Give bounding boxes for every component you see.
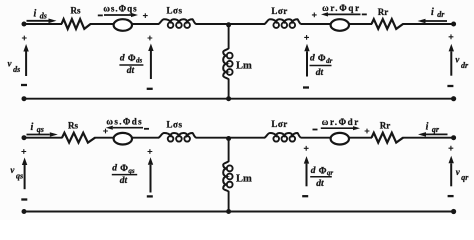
resistor Rs (q-axis stator resistance) xyxy=(62,133,95,143)
node: - mark of rotor speed emf (q) xyxy=(313,129,318,131)
node: + mark of stator speed emf (q) xyxy=(103,129,108,134)
wire: centre junction to L&#963;r xyxy=(229,137,265,139)
node: + mark of d&#934;qr/dt xyxy=(304,146,309,151)
svg-text:Rs: Rs xyxy=(70,5,80,15)
wire: centre junction to L&#963;r xyxy=(229,23,265,25)
source: rotor speed emf (q-axis) xyxy=(331,133,349,145)
node: bottom-left d port xyxy=(22,96,27,101)
resistor Rr (q-axis rotor resistance) xyxy=(372,133,404,143)
node: - mark of vqs xyxy=(21,198,27,200)
wire: source to Rr xyxy=(349,23,372,25)
svg-text:dt: dt xyxy=(120,176,128,186)
wire: centre junction down to Lm (q) xyxy=(228,138,230,162)
wire: polarity arrow of vdr xyxy=(449,44,454,76)
wire: polarity arrow of vqr xyxy=(449,156,454,187)
svg-text:qs: qs xyxy=(16,172,23,181)
svg-text:v: v xyxy=(455,54,460,64)
node: + mark of vdr xyxy=(449,34,454,39)
node: - mark of stator speed emf (q) xyxy=(144,128,149,130)
node: - mark of d&#934;qr/dt xyxy=(302,195,308,197)
svg-text:ωs.Φds: ωs.Φds xyxy=(106,117,143,127)
wire: current arrow iqs xyxy=(27,132,58,137)
svg-text:v: v xyxy=(8,58,13,68)
wire: current arrow idr xyxy=(418,19,448,24)
source: rotor speed emf (d-axis) xyxy=(331,19,349,31)
node: + mark of vqr xyxy=(449,146,454,151)
node: bottom-right q port xyxy=(451,209,456,214)
svg-text:Lσs: Lσs xyxy=(167,6,183,16)
label vds xyxy=(8,58,21,73)
svg-text:Lm: Lm xyxy=(236,173,252,184)
node: + mark of d&#934;qs/dt xyxy=(148,149,153,154)
svg-text:Φ: Φ xyxy=(318,54,326,64)
wire: polarity arrow of rotor speed emf (q) xyxy=(321,126,360,130)
wire: top rail, left port to Rs xyxy=(24,23,62,25)
wire: polarity arrow of rotor speed emf (d) xyxy=(321,12,361,16)
label d&#934;qs/dt (stator q flux emf) xyxy=(112,164,137,186)
node: - mark of vds xyxy=(21,84,27,86)
wire: source to L&#963;s xyxy=(132,23,159,25)
svg-text:Lσr: Lσr xyxy=(271,119,287,129)
node: + mark of vqs xyxy=(21,149,26,154)
svg-text:Lσr: Lσr xyxy=(271,6,287,16)
svg-text:ωs.Φqs: ωs.Φqs xyxy=(103,4,137,14)
wire: centre junction down to Lm xyxy=(228,24,230,49)
wire: Lm down to bottom rail xyxy=(228,79,230,99)
wire: bottom rail (q-axis) xyxy=(24,211,454,213)
wire: L&#963;s to centre junction xyxy=(196,23,229,25)
inductor L&#963;r (q-axis rotor leakage) xyxy=(265,133,302,142)
svg-text:dr: dr xyxy=(437,10,445,19)
svg-text:ds: ds xyxy=(40,12,47,21)
node: + mark of vds xyxy=(22,36,27,41)
node: - mark of vqr xyxy=(448,195,454,197)
wire: polarity arrow of d&#934;qs/dt xyxy=(148,157,153,192)
label ids (stator d-axis current) xyxy=(34,8,47,20)
wire: Rr to right port xyxy=(403,137,454,139)
svg-text:d: d xyxy=(120,53,125,63)
svg-text:i: i xyxy=(34,8,37,19)
label iqs (stator q-axis current) xyxy=(31,122,44,134)
svg-text:i: i xyxy=(31,122,34,133)
node: bottom-left q port xyxy=(22,209,27,214)
svg-text:Φ: Φ xyxy=(319,166,327,176)
node: centre junction (magnetising branch) xyxy=(226,136,231,141)
node: right q-axis port (top) xyxy=(451,135,456,140)
resistor Rr (d-axis rotor resistance) xyxy=(372,19,404,29)
node: - mark of d&#934;ds/dt xyxy=(147,88,153,90)
wire: Rs to stator speed-emf source xyxy=(95,137,115,139)
svg-text:d: d xyxy=(311,166,316,176)
node: right d-axis port (top) xyxy=(451,22,456,27)
svg-text:v: v xyxy=(10,165,15,175)
svg-text:Rr: Rr xyxy=(378,7,389,17)
svg-text:ds: ds xyxy=(136,57,143,65)
svg-text:d: d xyxy=(310,54,315,64)
inductor Lm (d-axis magnetising) xyxy=(223,48,232,79)
wire: polarity arrow of vds xyxy=(23,44,28,76)
node: bottom centre junction (q) xyxy=(226,209,231,214)
label vqs xyxy=(10,165,23,180)
label idr (rotor d-axis current) xyxy=(431,7,445,19)
inductor Lm (q-axis magnetising) xyxy=(223,161,232,192)
wire: polarity arrow of d&#934;dr/dt xyxy=(304,44,309,77)
svg-text:qr: qr xyxy=(432,125,440,134)
wire: source to L&#963;s xyxy=(132,137,159,139)
svg-text:dt: dt xyxy=(316,68,324,78)
label iqr (rotor q-axis current) xyxy=(426,122,440,134)
label d&#934;qr/dt (rotor q flux emf) xyxy=(310,166,333,189)
node: + mark of stator speed emf (d) xyxy=(143,13,148,18)
source: stator speed emf (d-axis) xyxy=(114,19,132,31)
wire: polarity arrow of d&#934;qr/dt xyxy=(304,156,309,186)
source: stator speed emf (q-axis) xyxy=(114,133,132,145)
svg-text:dr: dr xyxy=(461,61,469,70)
wire: bottom rail (d-axis) xyxy=(24,98,454,100)
wire: source to Rr xyxy=(349,137,372,139)
svg-text:Lσs: Lσs xyxy=(167,119,183,129)
node: + mark of rotor speed emf (q) xyxy=(365,129,370,134)
wire: L&#963;s to centre junction xyxy=(196,137,229,139)
svg-text:ds: ds xyxy=(13,65,20,74)
node: left q-axis port (top) xyxy=(22,135,27,140)
node: bottom-right d port xyxy=(451,96,456,101)
svg-text:v: v xyxy=(456,167,461,177)
label vqr xyxy=(456,167,470,182)
wire: polarity arrow of stator speed emf (q) xyxy=(106,126,143,130)
svg-text:qr: qr xyxy=(327,169,334,177)
svg-text:dt: dt xyxy=(127,66,135,76)
svg-text:dr: dr xyxy=(326,57,333,65)
resistor Rs (d-axis stator resistance) xyxy=(62,19,91,29)
wire: Lm (q) down to bottom rail xyxy=(228,191,230,211)
node: - mark of d&#934;qs/dt xyxy=(147,195,153,197)
svg-text:ωr.Φqr: ωr.Φqr xyxy=(322,3,361,13)
node: left d-axis port (top) xyxy=(22,22,27,27)
svg-text:dt: dt xyxy=(316,179,324,189)
node: - mark of rotor speed emf (d) xyxy=(362,13,367,15)
node: centre junction (magnetising branch) xyxy=(226,22,231,27)
wire: current arrow ids xyxy=(27,19,57,24)
svg-text:qs: qs xyxy=(128,167,135,175)
label vdr xyxy=(455,54,469,69)
inductor L&#963;s (d-axis stator leakage) xyxy=(159,19,197,28)
node: + mark of rotor speed emf (d) xyxy=(312,13,317,18)
svg-text:Φ: Φ xyxy=(128,54,136,64)
svg-text:qs: qs xyxy=(37,125,44,134)
svg-text:i: i xyxy=(426,122,429,133)
label d&#934;ds/dt (stator d flux emf) xyxy=(119,53,143,76)
svg-text:Lm: Lm xyxy=(236,60,252,71)
node: - mark of vdr xyxy=(447,85,453,87)
inductor L&#963;r (d-axis rotor leakage) xyxy=(265,19,302,28)
svg-text:d: d xyxy=(112,164,117,174)
wire: polarity arrow of stator speed emf (d) xyxy=(104,13,138,17)
svg-text:ωr.Φdr: ωr.Φdr xyxy=(322,117,360,127)
node: + mark of d&#934;dr/dt xyxy=(304,35,309,40)
wire: polarity arrow of d&#934;ds/dt xyxy=(148,44,153,80)
wire: L&#963;r to rotor speed-emf source xyxy=(301,23,331,25)
label d&#934;dr/dt (rotor d flux emf) xyxy=(310,54,333,78)
node: bottom centre junction (d) xyxy=(226,96,231,101)
wire: L&#963;r to rotor speed-emf source xyxy=(301,137,331,139)
svg-text:Rs: Rs xyxy=(68,121,78,131)
node: - mark of stator speed emf (d) xyxy=(98,14,103,16)
svg-text:qr: qr xyxy=(461,173,469,182)
svg-text:i: i xyxy=(431,7,434,18)
wire: top rail, left port to Rs xyxy=(24,137,63,139)
wire: Rs to stator speed-emf source xyxy=(90,23,114,25)
wire: polarity arrow of vqs xyxy=(22,158,27,190)
svg-text:Φ: Φ xyxy=(120,164,128,174)
svg-text:Rr: Rr xyxy=(380,120,391,130)
wire: current arrow iqr xyxy=(418,132,448,137)
node: + mark of d&#934;ds/dt xyxy=(148,36,153,41)
inductor L&#963;s (q-axis stator leakage) xyxy=(159,133,197,142)
node: - mark of d&#934;dr/dt xyxy=(303,86,309,88)
wire: Rr to right port xyxy=(403,23,454,25)
